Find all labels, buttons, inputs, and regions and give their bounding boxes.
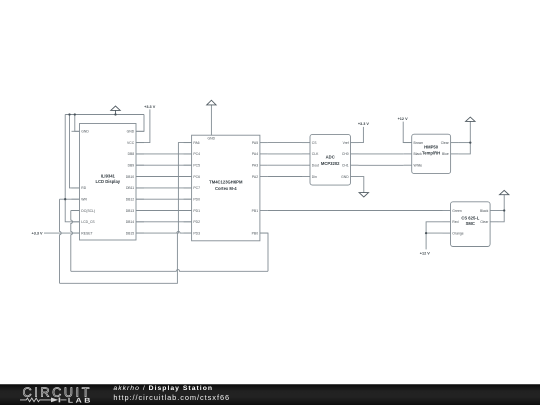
svg-text:HMP50: HMP50	[424, 145, 439, 150]
footer text: url	[113, 394, 230, 401]
junction HMP50 Clear/ground	[469, 141, 471, 143]
svg-text:MCP3202: MCP3202	[321, 161, 340, 166]
wire HMP50 ground riser	[459, 121, 471, 153]
wire net A riser to MCU PB0 pin	[260, 233, 268, 271]
svg-text:GND: GND	[341, 175, 349, 179]
svg-text:PB0: PB0	[252, 231, 259, 235]
wire ADC CH0 to HMP50 Black	[359, 153, 404, 155]
svg-text:Clear: Clear	[480, 220, 489, 224]
IC U4 HMP50 Temp/RH sensor	[404, 134, 459, 173]
svg-text:Din: Din	[312, 175, 317, 179]
junction +12V Red/Orange branch	[425, 232, 427, 234]
svg-text:+3.3 V: +3.3 V	[144, 105, 156, 109]
wire GND rail to LCD RD pin	[70, 115, 80, 188]
svg-text:CLK: CLK	[312, 152, 319, 156]
svg-text:+12 V: +12 V	[420, 252, 430, 256]
svg-text:CH0: CH0	[342, 152, 349, 156]
footer text: title	[113, 386, 213, 393]
wire CS625 ground riser	[498, 195, 504, 222]
wire MCU PA2-Din to ADC	[268, 176, 302, 178]
svg-text:RD: RD	[81, 186, 86, 190]
junction WR / GND drop	[64, 198, 66, 200]
svg-text:LCD_CS: LCD_CS	[81, 220, 95, 224]
wire MCU PA4-CLK to ADC	[268, 153, 302, 155]
wire net B bottom run WR to MCU PD3	[60, 233, 178, 283]
svg-text:PA3: PA3	[252, 163, 258, 167]
svg-text:DB10: DB10	[126, 175, 135, 179]
wire DC(SCL) vertical down (hops LCD_CS and +3.3V wires)	[71, 211, 73, 272]
svg-text:PB1: PB1	[252, 209, 259, 213]
wire LCD DB13 to MCU pin row 6	[136, 199, 192, 210]
svg-text:Orange: Orange	[452, 231, 463, 235]
svg-text:+12 V: +12 V	[398, 117, 408, 121]
wire MCU GND pin up to ground	[210, 105, 212, 135]
svg-text:DB13: DB13	[126, 209, 135, 213]
svg-text:VCC: VCC	[127, 141, 135, 145]
svg-text:ILI9341: ILI9341	[101, 173, 116, 178]
svg-text:Dout: Dout	[312, 163, 319, 167]
svg-text:ADC: ADC	[326, 155, 335, 160]
svg-text:Cortex M-4: Cortex M-4	[215, 186, 237, 191]
wire +3.3V down to ADC Vref	[359, 127, 364, 143]
wire HMP50 Clear to ground riser	[459, 142, 471, 144]
IC U2 TM4C123GH6PM Cortex M-4 MCU	[184, 135, 268, 241]
wire ADC GND down to ground	[359, 177, 364, 193]
svg-text:TM4C123GH6PM: TM4C123GH6PM	[209, 180, 243, 185]
wire LCD DB12 to MCU pin row 5	[136, 188, 192, 199]
wire LCD WR pin	[60, 198, 80, 200]
svg-text:CH1: CH1	[342, 163, 349, 167]
svg-text:DC(SCL): DC(SCL)	[81, 209, 95, 213]
svg-text:Green: Green	[452, 209, 462, 213]
wire +12V down to HMP50 Brown	[403, 122, 412, 143]
svg-text:CS: CS	[312, 141, 317, 145]
IC U5 CS 625-L SMC	[443, 202, 499, 247]
wire LCD DB14 to MCU pin row 7	[136, 211, 192, 222]
wire net B into MCU PD3 pin (hops DB15 jog)	[177, 231, 192, 233]
svg-text:DB12: DB12	[126, 197, 135, 201]
IC U3 ADC MCP3202	[302, 134, 359, 185]
ground G1 above LCD	[111, 106, 120, 115]
wire LCD DB8 to MCU pin row 1	[136, 143, 192, 154]
wire LCD DB9 to MCU pin row 2	[136, 154, 192, 165]
svg-text:PD1: PD1	[193, 209, 200, 213]
wire GND rail to LCD left GND pin	[75, 115, 80, 132]
svg-text:GND: GND	[81, 130, 89, 134]
svg-text:Red: Red	[452, 220, 458, 224]
wire +3.3V to LCD RESET pin	[44, 232, 80, 234]
svg-text:SMC: SMC	[466, 221, 475, 226]
svg-text:Temp/RH: Temp/RH	[422, 150, 440, 155]
svg-text:Vref: Vref	[343, 141, 349, 145]
ground G5 above CS 625-L	[500, 190, 509, 194]
svg-text:PA4: PA4	[252, 152, 258, 156]
svg-text:Brown: Brown	[414, 141, 424, 145]
svg-text:DB8: DB8	[128, 152, 135, 156]
svg-text:Blue: Blue	[442, 152, 449, 156]
junction on GND rail at ground symbol	[114, 113, 116, 115]
svg-text:+3.3 V: +3.3 V	[32, 232, 44, 236]
svg-text:Clear: Clear	[441, 141, 450, 145]
junction on GND rail at RD branch	[68, 113, 70, 115]
svg-text:PC6: PC6	[193, 175, 200, 179]
wire LCD DB11 to MCU pin row 4	[136, 177, 192, 188]
svg-text:PC4: PC4	[193, 152, 200, 156]
svg-text:PA2: PA2	[252, 175, 258, 179]
svg-text:WR: WR	[81, 197, 87, 201]
wire GND rail to LCD right GND pin	[136, 115, 144, 132]
wire LCD DB10 to MCU pin row 3	[136, 165, 192, 176]
svg-text:DB15: DB15	[126, 231, 135, 235]
wire GND top rail above LCD	[65, 114, 144, 116]
ground G2 above MCU	[207, 100, 216, 105]
svg-text:White: White	[414, 163, 423, 167]
svg-text:GND: GND	[208, 137, 216, 141]
svg-text:PA6: PA6	[193, 141, 199, 145]
svg-text:GND: GND	[127, 130, 135, 134]
wire ADC CH1 to HMP50 White	[359, 164, 404, 166]
svg-text:Black: Black	[480, 209, 489, 213]
svg-text:PA5: PA5	[252, 141, 258, 145]
junction on GND rail at left GND branch	[74, 113, 76, 115]
svg-text:LCD Display: LCD Display	[95, 179, 120, 184]
svg-text:DB11: DB11	[126, 186, 134, 190]
wire LCD DB15 to MCU pin row 8	[136, 222, 192, 233]
svg-text:DB9: DB9	[128, 163, 135, 167]
CircuitLab logo	[20, 384, 120, 405]
wire MCU PA3-Dout to ADC	[268, 164, 302, 166]
wire MCU PA5-CS to ADC	[268, 142, 302, 144]
wire GND rail down to LCD_CS pin	[65, 115, 79, 222]
svg-text:Black: Black	[414, 152, 423, 156]
svg-text:PD3: PD3	[193, 231, 200, 235]
svg-text:PC7: PC7	[193, 186, 200, 190]
svg-text:+3.3 V: +3.3 V	[358, 122, 370, 126]
wire +3.3V down to LCD VCC pin	[136, 109, 150, 142]
svg-text:PC5: PC5	[193, 163, 200, 167]
wire LCD DC(SCL) pin	[71, 210, 80, 212]
wire WR vertical down (hops +3.3V wire)	[60, 199, 62, 283]
svg-text:PD0: PD0	[193, 197, 200, 201]
ground G3 below ADC	[359, 193, 368, 197]
junction CS625 Black/ground	[503, 209, 505, 211]
wire net A bottom run DC(SCL) to MCU PB0 (hops net B riser)	[71, 270, 268, 272]
svg-text:RESET: RESET	[81, 231, 92, 235]
wire +12V branch to CS625 Orange	[426, 232, 442, 234]
IC U1 ILI9341 LCD Display	[72, 124, 145, 241]
ground G4 above HMP50	[466, 117, 475, 121]
wire +12V up to CS625 Red	[426, 222, 442, 250]
svg-text:DB14: DB14	[126, 220, 135, 224]
wire CS625 Black to ground riser	[498, 210, 504, 212]
svg-text:PD2: PD2	[193, 220, 200, 224]
wire MCU PB1 to CS 625-L Green	[268, 210, 443, 212]
